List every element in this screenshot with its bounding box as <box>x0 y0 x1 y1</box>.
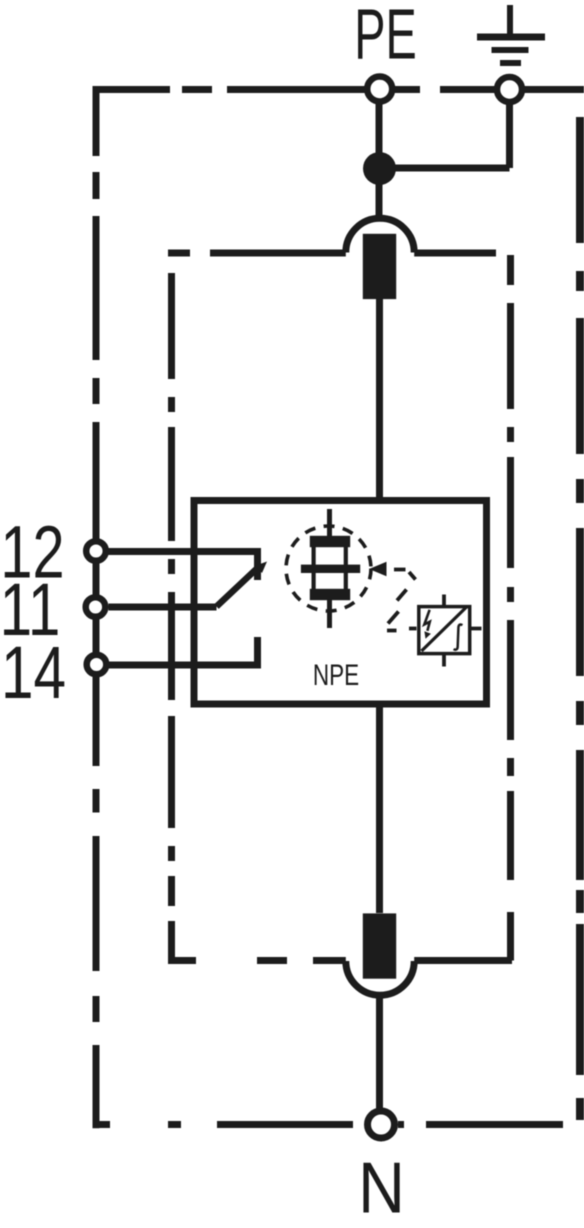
inner boundary right edge (dash-dot) <box>507 255 514 961</box>
outer enclosure top border (dash-dot) <box>93 86 584 93</box>
terminal circle 11 <box>86 597 106 617</box>
label NPE <box>313 658 359 692</box>
changeover contact: moving arm arrowhead <box>255 562 267 574</box>
changeover contact: fixed contact 14 wire with stub <box>109 637 258 665</box>
gas discharge tube: bottom electrode plate <box>310 589 350 600</box>
outer enclosure bottom border (dash-dot) <box>96 1121 563 1128</box>
disconnector element (top, filled rect) <box>363 234 396 299</box>
trigger box diagonal <box>422 607 467 651</box>
trigger box lightning bolt <box>424 610 430 631</box>
gas discharge tube: dashed circle <box>286 526 371 611</box>
disconnector arc (bottom) <box>346 961 414 995</box>
terminal circle 14 <box>87 655 107 675</box>
inner boundary bottom edge (dash-dot) <box>168 957 512 964</box>
svg-text:14: 14 <box>1 633 66 715</box>
trigger box stubs <box>444 595 482 667</box>
terminal circle N <box>368 1111 395 1138</box>
inner boundary top edge (dash-dot) <box>168 250 496 257</box>
inner boundary left edge (dash-dot) <box>168 273 175 961</box>
wire NPE module to bottom disconnector <box>376 707 383 913</box>
trigger box <box>419 607 470 654</box>
gas discharge tube: top electrode plate <box>310 536 350 547</box>
label 14 <box>1 633 66 715</box>
changeover contact: moving arm <box>217 567 259 607</box>
gas discharge tube: top stub <box>327 509 332 536</box>
trigger link dashed zigzag <box>387 570 417 631</box>
terminal circle ground <box>497 77 522 102</box>
terminal circle PE <box>367 77 392 102</box>
changeover contact: fixed contact 12 wire with stub <box>109 552 258 581</box>
label N <box>358 1147 405 1228</box>
gas discharge tube: bottom stub <box>327 600 332 628</box>
wire bottom disconnector to N terminal <box>376 995 383 1110</box>
wire PE terminal down to junction and arc <box>376 100 383 219</box>
svg-text:N: N <box>358 1147 405 1228</box>
junction dot <box>363 152 396 185</box>
gas discharge tube: side walls <box>314 547 346 589</box>
outer enclosure right border (dash-dot) <box>576 86 584 1120</box>
ground symbol <box>507 5 513 37</box>
terminal circle 12 <box>86 541 106 561</box>
disconnector element (bottom, filled rect) <box>363 913 396 978</box>
label 11 <box>0 570 60 652</box>
disconnector arc (top) <box>346 218 414 252</box>
wire junction to ground terminal branch <box>379 100 510 168</box>
svg-text:NPE: NPE <box>313 658 359 692</box>
label 12 <box>0 512 64 595</box>
svg-text:PE: PE <box>354 0 417 74</box>
wire disconnector to NPE module <box>376 299 383 497</box>
NPE module box <box>194 501 487 705</box>
outer enclosure left border (dash-dot) <box>93 86 100 1128</box>
label PE <box>354 0 417 74</box>
spark gap arrow <box>369 562 387 576</box>
changeover contact: pole 11 wire <box>109 604 217 611</box>
gas discharge tube: middle bar <box>301 565 360 573</box>
trigger box integral sign <box>454 625 463 650</box>
